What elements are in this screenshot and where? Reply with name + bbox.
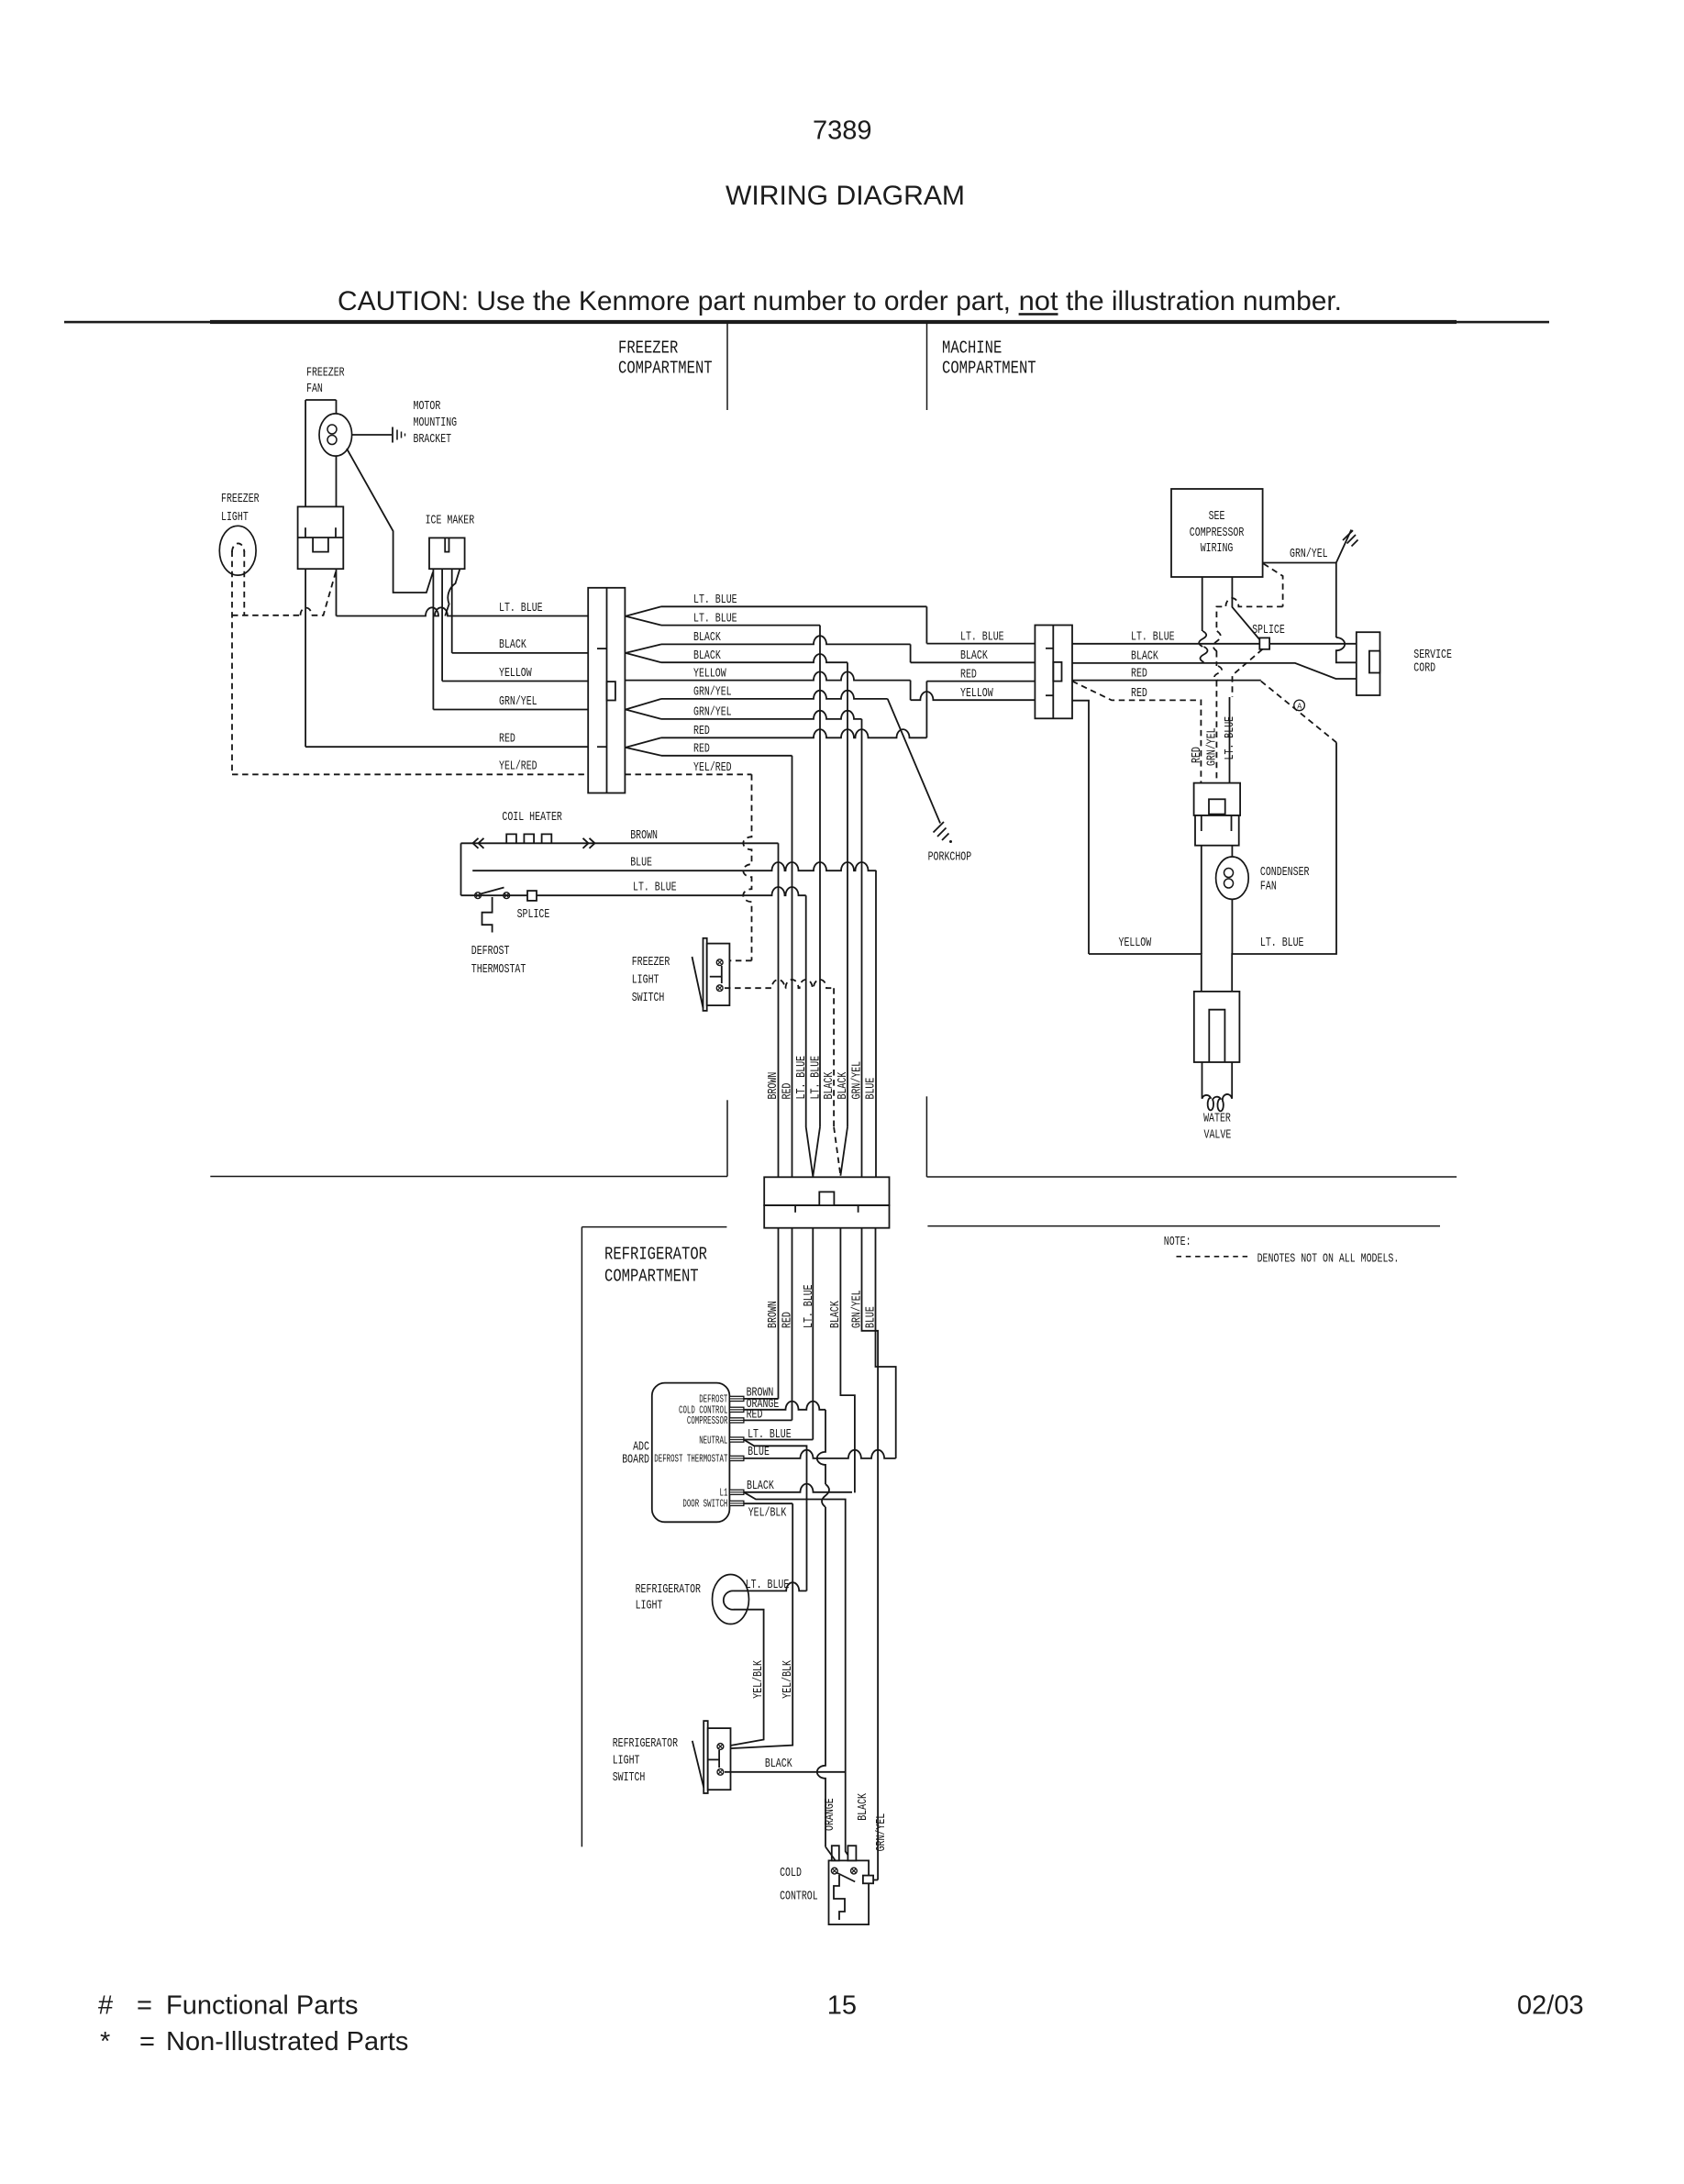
svg-text:ORANGE: ORANGE xyxy=(823,1798,837,1831)
svg-text:WIRING: WIRING xyxy=(1201,541,1234,556)
svg-text:SPLICE: SPLICE xyxy=(517,907,550,922)
svg-text:LT. BLUE: LT. BLUE xyxy=(748,1427,792,1442)
svg-text:WATER: WATER xyxy=(1203,1112,1231,1126)
svg-text:BROWN: BROWN xyxy=(766,1301,781,1328)
svg-text:YEL/BLK: YEL/BLK xyxy=(748,1506,787,1521)
svg-text:NOTE:: NOTE: xyxy=(1164,1235,1191,1249)
svg-text:GRN/YEL: GRN/YEL xyxy=(1290,547,1328,561)
svg-text:BLACK: BLACK xyxy=(765,1757,792,1771)
svg-text:WIRING DIAGRAM: WIRING DIAGRAM xyxy=(726,181,965,211)
svg-text:COMPRESSOR: COMPRESSOR xyxy=(687,1415,728,1427)
svg-text:BLACK: BLACK xyxy=(499,637,526,652)
svg-text:REFRIGERATOR: REFRIGERATOR xyxy=(613,1736,679,1751)
svg-text:BLACK: BLACK xyxy=(856,1793,870,1821)
svg-text:LT. BLUE: LT. BLUE xyxy=(1131,630,1175,645)
svg-text:RED: RED xyxy=(747,1407,763,1422)
svg-text:SWITCH: SWITCH xyxy=(632,991,665,1005)
svg-text:DEFROST: DEFROST xyxy=(471,944,510,959)
svg-text:FREEZER: FREEZER xyxy=(306,366,345,381)
svg-text:=: = xyxy=(139,2027,155,2057)
svg-text:RED: RED xyxy=(960,667,977,682)
svg-text:BLUE: BLUE xyxy=(864,1306,879,1328)
svg-text:GRN/YEL: GRN/YEL xyxy=(874,1813,889,1852)
svg-text:RED: RED xyxy=(781,1083,795,1100)
svg-text:MOUNTING: MOUNTING xyxy=(414,416,458,430)
svg-text:LT. BLUE: LT. BLUE xyxy=(960,629,1004,644)
svg-text:Non-Illustrated Parts: Non-Illustrated Parts xyxy=(166,2027,408,2057)
svg-text:LT. BLUE: LT. BLUE xyxy=(794,1056,809,1100)
svg-text:YELLOW: YELLOW xyxy=(693,666,726,681)
svg-text:FREEZER: FREEZER xyxy=(632,955,670,970)
svg-text:*: * xyxy=(100,2027,110,2057)
svg-text:YELLOW: YELLOW xyxy=(1119,936,1152,950)
svg-text:MACHINE: MACHINE xyxy=(942,338,1002,359)
svg-text:COMPARTMENT: COMPARTMENT xyxy=(618,359,713,379)
svg-text:FAN: FAN xyxy=(1260,880,1277,894)
svg-text:ICE MAKER: ICE MAKER xyxy=(426,514,475,528)
svg-text:YEL/RED: YEL/RED xyxy=(693,760,732,775)
svg-text:YEL/BLK: YEL/BLK xyxy=(781,1660,795,1699)
svg-text:FREEZER: FREEZER xyxy=(618,338,678,359)
svg-text:RED: RED xyxy=(693,742,710,757)
svg-text:YELLOW: YELLOW xyxy=(960,686,993,701)
svg-text:GRN/YEL: GRN/YEL xyxy=(1205,727,1220,766)
svg-text:Functional Parts: Functional Parts xyxy=(166,1991,359,2021)
svg-text:LT. BLUE: LT. BLUE xyxy=(1260,936,1304,950)
svg-text:CONTROL: CONTROL xyxy=(780,1890,818,1904)
svg-text:NEUTRAL: NEUTRAL xyxy=(699,1435,727,1447)
svg-text:DENOTES NOT ON ALL MODELS.: DENOTES NOT ON ALL MODELS. xyxy=(1257,1252,1400,1267)
svg-text:LT. BLUE: LT. BLUE xyxy=(746,1578,790,1592)
svg-text:YEL/RED: YEL/RED xyxy=(499,759,537,774)
svg-text:BLACK: BLACK xyxy=(828,1301,843,1328)
svg-text:REFRIGERATOR: REFRIGERATOR xyxy=(636,1582,702,1597)
svg-text:GRN/YEL: GRN/YEL xyxy=(693,705,732,720)
svg-text:BLUE: BLUE xyxy=(864,1078,879,1100)
svg-text:GRN/YEL: GRN/YEL xyxy=(693,685,732,700)
svg-text:CAUTION: Use the Kenmore part: CAUTION: Use the Kenmore part number to … xyxy=(338,286,1011,316)
svg-text:RED: RED xyxy=(1131,666,1147,681)
svg-text:DEFROST THERMOSTAT: DEFROST THERMOSTAT xyxy=(654,1454,727,1466)
svg-text:L1: L1 xyxy=(720,1488,728,1500)
svg-text:BROWN: BROWN xyxy=(766,1072,781,1100)
svg-text:BLUE: BLUE xyxy=(630,856,652,870)
svg-text:CONDENSER: CONDENSER xyxy=(1260,865,1310,880)
svg-text:BLACK: BLACK xyxy=(1131,649,1158,664)
svg-text:COMPARTMENT: COMPARTMENT xyxy=(604,1267,699,1287)
svg-text:THERMOSTAT: THERMOSTAT xyxy=(471,962,526,977)
svg-text:BROWN: BROWN xyxy=(630,828,658,843)
svg-text:YELLOW: YELLOW xyxy=(499,666,532,681)
svg-text:GRN/YEL: GRN/YEL xyxy=(850,1061,865,1100)
svg-text:FREEZER: FREEZER xyxy=(221,492,260,506)
svg-text:GRN/YEL: GRN/YEL xyxy=(850,1290,865,1328)
svg-text:the illustration number.: the illustration number. xyxy=(1066,286,1342,316)
svg-text:not: not xyxy=(1019,286,1059,316)
svg-text:DOOR SWITCH: DOOR SWITCH xyxy=(682,1499,727,1511)
svg-text:BOARD: BOARD xyxy=(622,1453,649,1468)
svg-text:BLACK: BLACK xyxy=(693,649,721,663)
svg-text:A: A xyxy=(1297,701,1302,711)
svg-text:VALVE: VALVE xyxy=(1204,1127,1232,1142)
svg-text:COLD: COLD xyxy=(780,1866,802,1880)
svg-text:MOTOR: MOTOR xyxy=(414,399,441,414)
svg-text:BLUE: BLUE xyxy=(748,1445,770,1459)
svg-text:RED: RED xyxy=(693,724,710,738)
svg-text:YEL/BLK: YEL/BLK xyxy=(751,1660,766,1699)
svg-text:COMPARTMENT: COMPARTMENT xyxy=(942,359,1036,379)
svg-text:LT. BLUE: LT. BLUE xyxy=(1223,716,1237,760)
svg-text:BRACKET: BRACKET xyxy=(414,432,452,447)
svg-text:RED: RED xyxy=(781,1312,795,1328)
svg-text:LIGHT: LIGHT xyxy=(636,1599,663,1613)
svg-text:LT. BLUE: LT. BLUE xyxy=(693,593,737,607)
svg-text:LIGHT: LIGHT xyxy=(632,973,659,988)
svg-text:BLACK: BLACK xyxy=(836,1071,850,1099)
svg-text:=: = xyxy=(137,1991,152,2021)
svg-text:RED: RED xyxy=(1190,747,1204,763)
svg-text:7389: 7389 xyxy=(813,116,872,146)
svg-text:SEE: SEE xyxy=(1209,509,1225,524)
svg-text:#: # xyxy=(98,1991,113,2021)
svg-text:02/03: 02/03 xyxy=(1517,1991,1584,2021)
svg-text:BLACK: BLACK xyxy=(822,1071,836,1099)
svg-text:RED: RED xyxy=(499,732,515,747)
svg-text:COIL HEATER: COIL HEATER xyxy=(502,810,562,825)
svg-text:GRN/YEL: GRN/YEL xyxy=(499,694,537,709)
svg-text:LT. BLUE: LT. BLUE xyxy=(802,1284,816,1328)
svg-text:LT. BLUE: LT. BLUE xyxy=(693,611,737,626)
svg-text:LIGHT: LIGHT xyxy=(613,1754,640,1768)
svg-text:RED: RED xyxy=(1131,686,1147,701)
svg-text:LIGHT: LIGHT xyxy=(221,510,249,525)
svg-text:SWITCH: SWITCH xyxy=(613,1770,646,1785)
svg-text:COMPRESSOR: COMPRESSOR xyxy=(1190,526,1245,540)
svg-text:LT. BLUE: LT. BLUE xyxy=(633,881,677,895)
svg-text:LT. BLUE: LT. BLUE xyxy=(499,601,543,615)
svg-text:BLACK: BLACK xyxy=(960,649,988,663)
svg-text:15: 15 xyxy=(827,1991,857,2021)
svg-text:FAN: FAN xyxy=(306,382,323,396)
svg-text:CORD: CORD xyxy=(1413,660,1435,675)
svg-text:BLACK: BLACK xyxy=(747,1479,774,1493)
svg-text:REFRIGERATOR: REFRIGERATOR xyxy=(604,1245,707,1265)
svg-text:BLACK: BLACK xyxy=(693,630,721,645)
svg-text:PORKCHOP: PORKCHOP xyxy=(928,850,972,865)
